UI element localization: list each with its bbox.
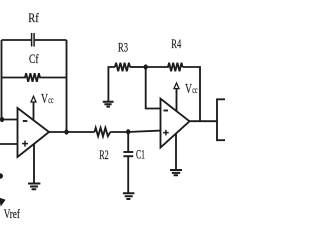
node U1 inverting input junction bbox=[0, 117, 4, 122]
wire U2 output to load box bbox=[190, 120, 218, 122]
capacitor C1 plate bottom bbox=[123, 155, 133, 157]
svg-text:R3: R3 bbox=[118, 39, 128, 54]
op-amp U1 minus sign bbox=[23, 120, 28, 122]
wire C1 upper stem bbox=[127, 132, 129, 152]
wire U1 output bbox=[49, 131, 95, 133]
wire U2 ground stem bbox=[175, 134, 177, 171]
svg-text:V: V bbox=[41, 91, 48, 106]
wire R3 to node bbox=[130, 66, 146, 68]
resistor Rf middle branch with zigzag bbox=[2, 73, 67, 82]
op-amp U1 plus sign bbox=[22, 141, 28, 147]
wire U1 non-inverting input bbox=[0, 143, 18, 145]
node Vref junction half-dot at left edge bbox=[0, 173, 3, 178]
wire top capacitor branch right segment bbox=[34, 39, 66, 41]
Vref arrowhead at left edge bbox=[0, 198, 5, 205]
load box at right edge bbox=[217, 99, 225, 140]
wire U1 ground stem bbox=[33, 144, 35, 184]
resistor R4 zigzag bbox=[146, 63, 183, 72]
ground below R3 bbox=[103, 102, 114, 107]
resistor R3 zigzag bbox=[115, 63, 130, 72]
svg-text:R2: R2 bbox=[99, 147, 109, 162]
svg-text:Rf: Rf bbox=[28, 10, 39, 25]
svg-text:cc: cc bbox=[48, 96, 53, 106]
ground below U1 bbox=[28, 184, 40, 190]
ground below C1 bbox=[123, 193, 134, 199]
wire feedback-loop right vertical bbox=[66, 40, 68, 132]
svg-text:V: V bbox=[185, 81, 192, 96]
ground below U2 bbox=[170, 170, 182, 175]
wire U1 inverting input bbox=[0, 119, 18, 121]
svg-text:R4: R4 bbox=[171, 36, 181, 51]
svg-text:cc: cc bbox=[192, 86, 197, 96]
wire Vcc stem U2 bbox=[176, 89, 178, 112]
op-amp U2 minus sign bbox=[164, 110, 169, 112]
wire C1 lower stem bbox=[127, 156, 129, 193]
capacitor Cf top branch plate left bbox=[31, 33, 33, 47]
node R2/C1 junction bbox=[126, 129, 130, 134]
wire Vcc stem U1 bbox=[33, 102, 35, 120]
node R3/R4 junction bbox=[144, 64, 148, 69]
wire top capacitor branch left segment bbox=[2, 39, 32, 41]
capacitor C1 plate top bbox=[123, 151, 133, 153]
svg-text:Cf: Cf bbox=[29, 51, 39, 66]
resistor R2 zigzag bbox=[95, 128, 111, 137]
op-amp U1 triangle bbox=[18, 108, 50, 157]
svg-text:Vref: Vref bbox=[4, 206, 21, 221]
svg-text:C1: C1 bbox=[136, 146, 145, 161]
node U1 output junction bbox=[64, 129, 68, 134]
wire feedback-loop left vertical bbox=[1, 40, 3, 120]
wire R3 left corner and ground stem bbox=[108, 67, 115, 102]
power Vcc arrow U2 bbox=[174, 83, 179, 89]
capacitor Cf top branch plate right bbox=[33, 33, 35, 47]
power Vcc arrow U1 bbox=[31, 96, 36, 102]
wire U2 inverting feed from node bbox=[146, 67, 161, 109]
op-amp U2 triangle bbox=[161, 99, 190, 148]
op-amp U2 plus sign bbox=[163, 130, 169, 136]
wire node to U2 non-inverting input bbox=[128, 131, 161, 132]
wire R4 right corner down to output row bbox=[183, 67, 201, 121]
wire R2 to node bbox=[110, 131, 128, 133]
